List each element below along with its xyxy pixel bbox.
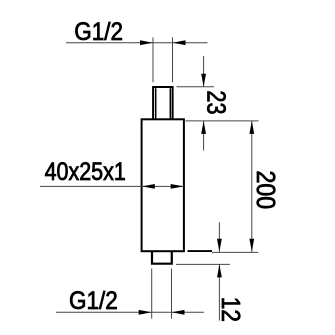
svg-text:200: 200 xyxy=(251,171,279,210)
svg-text:40x25x1: 40x25x1 xyxy=(45,158,126,186)
svg-text:G1/2: G1/2 xyxy=(69,287,118,315)
svg-text:12: 12 xyxy=(215,297,244,322)
svg-text:23: 23 xyxy=(201,90,229,114)
svg-text:G1/2: G1/2 xyxy=(74,18,123,46)
